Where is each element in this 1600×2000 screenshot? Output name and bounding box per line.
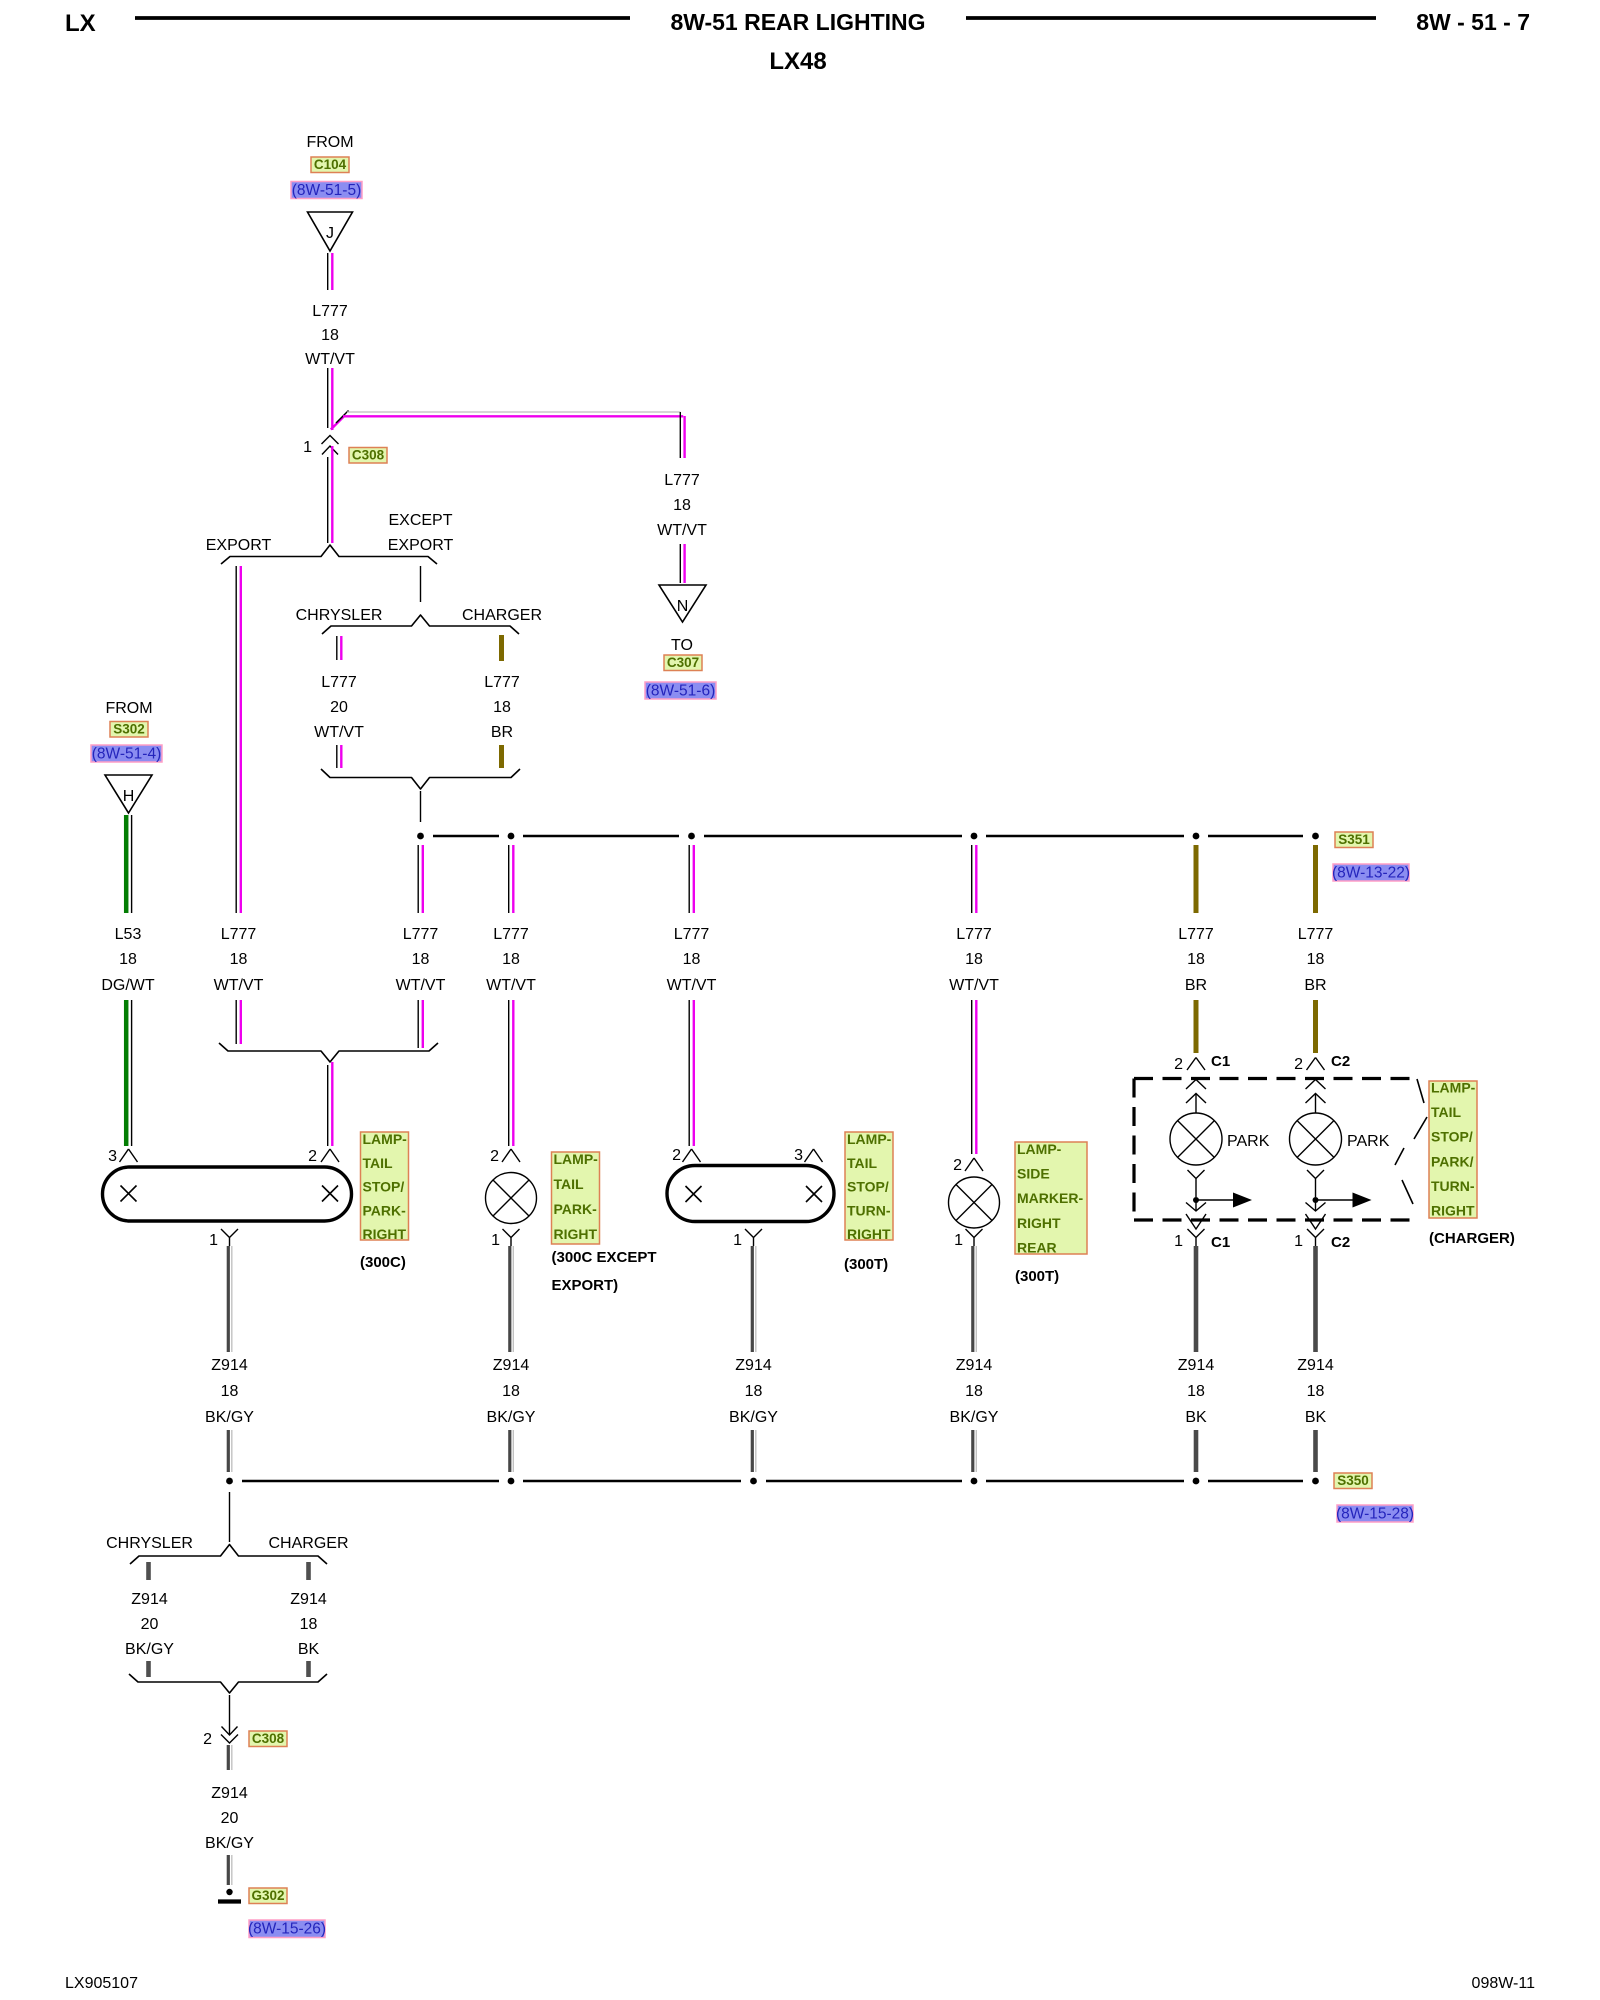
svg-text:1: 1	[491, 1232, 500, 1249]
wire col 1196 BR lower	[1194, 1000, 1199, 1053]
svg-text:PARK-: PARK-	[363, 1202, 407, 1218]
svg-text:C104: C104	[314, 157, 347, 172]
connector C1 pin 2	[1187, 1058, 1205, 1071]
lamp 511 pin 1	[503, 1229, 520, 1246]
park lamp 2 lower connector	[1307, 1170, 1324, 1197]
off-page connector triangle H	[105, 775, 152, 813]
svg-text:STOP/: STOP/	[363, 1179, 405, 1195]
reference (8W-51-5) label box	[291, 182, 362, 199]
svg-text:EXCEPT: EXCEPT	[388, 512, 452, 529]
park lamp 1 bottom pass-through	[1195, 1200, 1197, 1211]
svg-text:LX: LX	[65, 10, 96, 37]
in-line connector C308 pin 1	[322, 436, 339, 445]
wire arrow into C308	[229, 1695, 231, 1735]
svg-text:L777: L777	[484, 674, 520, 691]
svg-text:STOP/: STOP/	[847, 1179, 889, 1195]
junction dot at 511	[508, 833, 515, 840]
splice S351 label box	[1335, 832, 1373, 848]
lamp tail park right circle	[486, 1173, 537, 1224]
svg-text:L777: L777	[312, 303, 348, 320]
lamp assembly dashed outline bottom	[1134, 1218, 1418, 1221]
wire col 420 upper	[417, 845, 419, 913]
wire col 511 upper	[508, 845, 510, 913]
svg-text:C308: C308	[352, 448, 385, 463]
park lamp 1 bulb	[1170, 1113, 1222, 1165]
svg-text:PARK-: PARK-	[554, 1201, 598, 1217]
svg-text:18: 18	[965, 951, 983, 968]
svg-text:C2: C2	[1331, 1234, 1350, 1251]
wire chrysler stub BK/GY upper	[146, 1562, 151, 1580]
wire Z914 col 511 lower	[508, 1430, 511, 1472]
svg-text:EXPORT: EXPORT	[206, 537, 272, 554]
splice S350 label box	[1334, 1473, 1372, 1489]
svg-text:18: 18	[119, 951, 137, 968]
svg-text:18: 18	[502, 951, 520, 968]
wire EXPORT branch upper	[235, 566, 237, 913]
wire L53 DG/WT lower	[124, 1000, 129, 1146]
svg-text:(8W-15-26): (8W-15-26)	[248, 1921, 326, 1938]
svg-text:LX905107: LX905107	[65, 1975, 138, 1992]
splice S302 label box	[110, 722, 148, 738]
svg-text:1: 1	[1294, 1233, 1303, 1250]
wire col 1196 BR upper	[1194, 845, 1199, 913]
svg-text:DG/WT: DG/WT	[101, 977, 155, 994]
wire col 974 lower	[971, 1000, 973, 1154]
BUS2	[226, 1473, 1414, 1523]
park lamp 1 internal connector	[1186, 1080, 1206, 1090]
wire col 511 lower	[508, 1000, 510, 1146]
junction dot at 692	[688, 833, 695, 840]
svg-text:TAIL: TAIL	[847, 1155, 878, 1171]
lamp 300T filament x right	[806, 1186, 822, 1202]
svg-text:LAMP-: LAMP-	[1431, 1080, 1476, 1096]
svg-text:BK: BK	[1185, 1409, 1207, 1426]
svg-text:EXPORT: EXPORT	[388, 537, 454, 554]
svg-text:18: 18	[683, 951, 701, 968]
svg-text:(8W-15-28): (8W-15-28)	[1336, 1506, 1414, 1523]
LOWCOLS	[205, 1246, 1334, 1472]
svg-text:S350: S350	[1337, 1473, 1369, 1488]
wire Z914 col 974 lower	[971, 1430, 974, 1472]
wire segment C308 to export split	[327, 457, 329, 543]
lamp 300T pin 3	[805, 1149, 823, 1162]
lamp assembly jagged right edge	[1395, 1079, 1427, 1204]
svg-text:18: 18	[1187, 1383, 1205, 1400]
svg-text:18: 18	[230, 951, 248, 968]
wire col 420 lower	[417, 1000, 419, 1048]
svg-text:Z914: Z914	[211, 1785, 248, 1802]
wire col 692 lower	[688, 1000, 690, 1146]
BUS1	[417, 832, 1410, 882]
svg-text:2: 2	[308, 1148, 317, 1165]
svg-text:FROM: FROM	[105, 700, 152, 717]
svg-text:S302: S302	[113, 722, 145, 737]
svg-text:BK/GY: BK/GY	[950, 1409, 999, 1426]
svg-text:18: 18	[745, 1383, 763, 1400]
svg-text:C307: C307	[667, 655, 699, 670]
svg-text:(CHARGER): (CHARGER)	[1429, 1230, 1515, 1247]
wire chrysler stub upper	[336, 636, 338, 660]
svg-text:18: 18	[1307, 951, 1325, 968]
connector C2 pin 2	[1307, 1058, 1325, 1071]
svg-text:(8W-51-4): (8W-51-4)	[92, 746, 161, 763]
svg-text:J: J	[326, 225, 334, 242]
svg-text:WT/VT: WT/VT	[657, 522, 707, 539]
wire charger stub lower BR	[499, 745, 504, 768]
svg-text:PARK: PARK	[1347, 1133, 1390, 1150]
svg-text:1: 1	[954, 1232, 963, 1249]
svg-text:BK/GY: BK/GY	[205, 1409, 254, 1426]
lamp 300C filament x left	[121, 1186, 137, 1202]
label LAMP-TAIL STOP/PARK-RIGHT box	[361, 1132, 409, 1240]
wire col 1315 BR upper	[1313, 845, 1318, 913]
svg-text:LAMP-: LAMP-	[847, 1131, 892, 1147]
svg-text:(300C): (300C)	[360, 1254, 406, 1271]
svg-text:REAR: REAR	[1017, 1239, 1057, 1255]
svg-text:BK/GY: BK/GY	[205, 1835, 254, 1852]
side marker pin 1	[966, 1229, 983, 1246]
wire Z914 col 1196 BK lower	[1194, 1430, 1199, 1472]
svg-text:18: 18	[1187, 951, 1205, 968]
svg-text:SIDE: SIDE	[1017, 1166, 1050, 1182]
svg-text:WT/VT: WT/VT	[305, 351, 355, 368]
brace export merge into pin2	[219, 1043, 438, 1062]
svg-text:CHRYSLER: CHRYSLER	[106, 1535, 193, 1552]
wire EXPORT branch lower	[235, 1000, 237, 1044]
label LAMP-TAIL STOP/TURN-RIGHT box	[845, 1132, 893, 1240]
svg-text:C1: C1	[1211, 1234, 1230, 1251]
splice bus S350 segments	[242, 1480, 499, 1483]
connector C307 label box	[664, 655, 702, 671]
wire col 1315 BR lower	[1313, 1000, 1318, 1053]
lamp 300C pin 1	[221, 1229, 238, 1246]
svg-text:G302: G302	[251, 1888, 284, 1903]
S302CHAIN	[91, 700, 162, 1146]
svg-text:18: 18	[321, 327, 339, 344]
svg-text:WT/VT: WT/VT	[396, 977, 446, 994]
wire Z914 col 229 upper	[227, 1246, 230, 1352]
svg-text:18: 18	[300, 1616, 318, 1633]
svg-text:WT/VT: WT/VT	[314, 724, 364, 741]
svg-text:WT/VT: WT/VT	[214, 977, 264, 994]
lamp assembly dashed outline top	[1134, 1077, 1411, 1080]
svg-text:S351: S351	[1338, 832, 1370, 847]
svg-text:18: 18	[673, 497, 691, 514]
park lamp 1 junction dot	[1193, 1197, 1199, 1203]
lamp 300C pin 3	[120, 1149, 138, 1162]
svg-text:WT/VT: WT/VT	[949, 977, 999, 994]
wire col 974 upper	[971, 845, 973, 913]
wire charger stub BK upper	[306, 1562, 311, 1580]
wire corner down	[679, 412, 681, 458]
svg-text:(8W-51-5): (8W-51-5)	[292, 182, 361, 199]
off-page connector triangle J	[308, 212, 353, 251]
wire L777 WT/VT segment below J	[327, 253, 329, 290]
svg-text:LAMP-: LAMP-	[554, 1151, 599, 1167]
svg-text:(300C EXCEPT: (300C EXCEPT	[552, 1249, 657, 1266]
junction dot at 511	[508, 1478, 515, 1485]
brace chrysler/charger merge	[321, 769, 520, 789]
svg-text:Z914: Z914	[1297, 1357, 1334, 1374]
svg-text:Z914: Z914	[735, 1357, 772, 1374]
reference (8W-15-26) label box	[249, 1920, 325, 1938]
park lamp 2 internal connector	[1306, 1080, 1326, 1090]
svg-text:BK: BK	[298, 1641, 320, 1658]
wire charger stub BK lower	[306, 1661, 311, 1677]
svg-text:(8W-13-22): (8W-13-22)	[1332, 865, 1410, 882]
wire L777 WT/VT segment above C308	[327, 368, 329, 428]
svg-text:(300T): (300T)	[1015, 1268, 1059, 1285]
ground G302 symbol	[226, 1889, 232, 1895]
svg-text:RIGHT: RIGHT	[847, 1226, 891, 1242]
BOTTOM	[106, 1492, 348, 1938]
svg-text:3: 3	[108, 1148, 117, 1165]
svg-text:20: 20	[221, 1810, 239, 1827]
wire Z914 col 511 upper	[508, 1246, 511, 1352]
svg-text:RIGHT: RIGHT	[363, 1226, 407, 1242]
splice bus S351 segments	[433, 835, 499, 838]
brace bottom merge	[129, 1674, 327, 1693]
lamp 300T pin 2	[683, 1149, 701, 1162]
park lamp 2 junction dot	[1313, 1197, 1319, 1203]
svg-text:C2: C2	[1331, 1053, 1350, 1070]
svg-text:1: 1	[209, 1232, 218, 1249]
wire branch diagonal at C308	[331, 416, 344, 429]
wire merged to lamp pin 2	[327, 1065, 329, 1146]
svg-text:RIGHT: RIGHT	[1017, 1215, 1061, 1231]
lamp side marker circle	[949, 1177, 1000, 1228]
junction dot at 974	[971, 1478, 978, 1485]
junction dot at 1315	[1312, 833, 1319, 840]
svg-text:Z914: Z914	[956, 1357, 993, 1374]
svg-text:RIGHT: RIGHT	[1431, 1203, 1475, 1219]
wire Z914 below C308	[227, 1745, 230, 1770]
svg-text:BR: BR	[1304, 977, 1326, 994]
svg-text:18: 18	[221, 1383, 239, 1400]
svg-text:2: 2	[672, 1147, 681, 1164]
lamp assembly dashed outline left	[1132, 1079, 1135, 1221]
junction dot at 420	[417, 833, 424, 840]
ground G302 label box	[249, 1888, 287, 1904]
svg-text:098W-11: 098W-11	[1472, 1975, 1536, 1992]
CHARGERBOX	[1134, 1053, 1515, 1251]
wire Z914 col 1315 BK upper	[1313, 1246, 1318, 1352]
svg-text:L777: L777	[674, 926, 710, 943]
svg-text:WT/VT: WT/VT	[486, 977, 536, 994]
svg-text:L777: L777	[664, 472, 700, 489]
svg-text:L777: L777	[1178, 926, 1214, 943]
svg-text:TAIL: TAIL	[363, 1155, 394, 1171]
connector C104 label box	[311, 157, 349, 173]
park lamp 2 bottom pass-through	[1315, 1200, 1317, 1211]
svg-text:TURN-: TURN-	[1431, 1178, 1475, 1194]
wire Z914 col 229 lower	[227, 1430, 230, 1472]
svg-text:18: 18	[1307, 1383, 1325, 1400]
reference (8W-15-28) label box	[1337, 1505, 1413, 1522]
park lamp 1 lower connector	[1188, 1170, 1205, 1197]
lamp 300C filament x right	[322, 1186, 338, 1202]
svg-text:1: 1	[733, 1232, 742, 1249]
svg-text:L777: L777	[1298, 926, 1334, 943]
svg-text:TAIL: TAIL	[1431, 1104, 1462, 1120]
svg-text:2: 2	[490, 1148, 499, 1165]
park lamp 2 feed arrow	[1316, 1199, 1353, 1201]
reference (8W-51-4) label box	[91, 745, 162, 762]
svg-text:CHARGER: CHARGER	[462, 607, 542, 624]
svg-text:2: 2	[1294, 1056, 1303, 1073]
svg-text:18: 18	[965, 1383, 983, 1400]
lamp 300C tail/stop/park body	[103, 1167, 352, 1221]
svg-text:BR: BR	[1185, 977, 1207, 994]
junction dot at 229	[226, 1478, 233, 1485]
connector C308 label box bottom	[249, 1731, 287, 1747]
wire charger stub upper BR	[499, 635, 504, 661]
reference (8W-13-22) label box	[1333, 864, 1409, 881]
svg-text:2: 2	[1174, 1056, 1183, 1073]
svg-text:L777: L777	[221, 926, 257, 943]
svg-text:(300T): (300T)	[844, 1256, 888, 1273]
svg-text:BK/GY: BK/GY	[729, 1409, 778, 1426]
svg-text:N: N	[677, 598, 689, 615]
wire Z914 col 753 upper	[751, 1246, 754, 1352]
svg-text:1: 1	[1174, 1233, 1183, 1250]
svg-text:L53: L53	[115, 926, 142, 943]
svg-text:Z914: Z914	[211, 1357, 248, 1374]
TOPCHAIN	[291, 134, 387, 543]
svg-text:C1: C1	[1211, 1053, 1230, 1070]
junction dot at 1315	[1312, 1478, 1319, 1485]
wire Z914 col 974 upper	[971, 1246, 974, 1352]
svg-text:BK: BK	[1305, 1409, 1327, 1426]
SPLITS	[206, 512, 542, 1146]
svg-text:BK/GY: BK/GY	[487, 1409, 536, 1426]
svg-text:18: 18	[412, 951, 430, 968]
svg-text:8W-51 REAR LIGHTING: 8W-51 REAR LIGHTING	[670, 9, 925, 35]
svg-text:H: H	[123, 788, 135, 805]
svg-text:L777: L777	[956, 926, 992, 943]
svg-text:20: 20	[330, 699, 348, 716]
svg-text:BK/GY: BK/GY	[125, 1641, 174, 1658]
brace bottom chrysler/charger split	[130, 1545, 327, 1565]
in-line connector C308 pin 2	[221, 1735, 238, 1744]
wire stem from bus2 to split	[229, 1492, 231, 1542]
wire Z914 to ground	[227, 1855, 230, 1885]
svg-text:C308: C308	[252, 1731, 285, 1746]
lamp 511 pin 2	[502, 1149, 520, 1162]
wire L53 DG/WT upper	[124, 815, 129, 913]
side marker pin 2	[965, 1158, 983, 1171]
connector C308 label box	[349, 448, 387, 464]
svg-text:Z914: Z914	[290, 1591, 327, 1608]
MIDCOLS	[396, 845, 1334, 1154]
wire segment above N	[679, 544, 681, 583]
svg-text:18: 18	[502, 1383, 520, 1400]
svg-text:(8W-51-6): (8W-51-6)	[646, 683, 715, 700]
svg-text:TO: TO	[671, 637, 693, 654]
svg-text:Z914: Z914	[1178, 1357, 1215, 1374]
svg-text:PARK: PARK	[1227, 1133, 1270, 1150]
junction dot at 1196	[1193, 833, 1200, 840]
header rule right	[966, 16, 1376, 20]
wire Z914 col 1196 BK upper	[1194, 1246, 1199, 1352]
brace export split	[221, 545, 437, 564]
svg-text:3: 3	[794, 1147, 803, 1164]
connector C1 pin 1	[1188, 1229, 1205, 1246]
svg-text:BR: BR	[491, 724, 513, 741]
lamp 300T tail/stop/turn body	[667, 1166, 834, 1222]
wire Z914 col 753 lower	[751, 1430, 754, 1472]
junction dot at 753	[750, 1478, 757, 1485]
svg-text:MARKER-: MARKER-	[1017, 1190, 1083, 1206]
svg-text:L777: L777	[321, 674, 357, 691]
brace chrysler/charger split	[322, 615, 519, 634]
park lamp 2 bulb	[1290, 1113, 1342, 1165]
svg-text:LX48: LX48	[769, 48, 826, 75]
svg-text:Z914: Z914	[131, 1591, 168, 1608]
FOOTER	[65, 1975, 1535, 1992]
svg-text:CHARGER: CHARGER	[268, 1535, 348, 1552]
lamp 300T filament x left	[686, 1186, 702, 1202]
HEADER	[65, 9, 1530, 75]
wire branch horizontal run to right	[347, 411, 680, 413]
wire merge stem to bus	[420, 791, 422, 822]
wire Z914 col 1315 BK lower	[1313, 1430, 1318, 1472]
svg-text:EXPORT): EXPORT)	[552, 1277, 619, 1294]
junction dot at 1196	[1193, 1478, 1200, 1485]
wire except-export stem	[420, 566, 422, 602]
label LAMP-TAIL PARK-RIGHT box	[552, 1152, 600, 1244]
svg-text:TURN-: TURN-	[847, 1202, 891, 1218]
RIGHTCHAIN	[331, 411, 716, 700]
svg-text:CHRYSLER: CHRYSLER	[296, 607, 383, 624]
wire chrysler stub BK/GY lower	[146, 1661, 151, 1677]
header rule left	[135, 16, 630, 20]
lamp 300T pin 1	[745, 1229, 762, 1246]
svg-text:RIGHT: RIGHT	[554, 1226, 598, 1242]
off-page connector triangle N	[659, 585, 706, 622]
connector C2 pin 1	[1307, 1229, 1324, 1246]
svg-text:LAMP-: LAMP-	[1017, 1141, 1062, 1157]
label LAMP-TAIL STOP/PARK/TURN-RIGHT box	[1429, 1081, 1477, 1218]
svg-text:LAMP-: LAMP-	[363, 1131, 408, 1147]
svg-text:Z914: Z914	[493, 1357, 530, 1374]
svg-text:L777: L777	[403, 926, 439, 943]
svg-text:18: 18	[493, 699, 511, 716]
lamp 300C pin 2	[321, 1149, 339, 1162]
junction dot at 974	[971, 833, 978, 840]
svg-text:FROM: FROM	[306, 134, 353, 151]
svg-text:PARK/: PARK/	[1431, 1153, 1474, 1169]
wire chrysler stub lower	[336, 745, 338, 768]
park lamp 1 feed arrow	[1196, 1199, 1233, 1201]
svg-text:2: 2	[953, 1157, 962, 1174]
svg-text:20: 20	[141, 1616, 159, 1633]
label LAMP-SIDE MARKER-RIGHT REAR box	[1015, 1142, 1087, 1254]
LAMPS	[103, 1131, 1088, 1294]
svg-text:L777: L777	[493, 926, 529, 943]
svg-text:STOP/: STOP/	[1431, 1129, 1473, 1145]
svg-text:WT/VT: WT/VT	[667, 977, 717, 994]
svg-text:2: 2	[203, 1731, 212, 1748]
svg-text:TAIL: TAIL	[554, 1176, 585, 1192]
reference (8W-51-6) label box	[645, 682, 716, 699]
svg-text:8W - 51 - 7: 8W - 51 - 7	[1416, 9, 1530, 35]
svg-text:1: 1	[303, 439, 312, 456]
wire col 692 upper	[688, 845, 690, 913]
